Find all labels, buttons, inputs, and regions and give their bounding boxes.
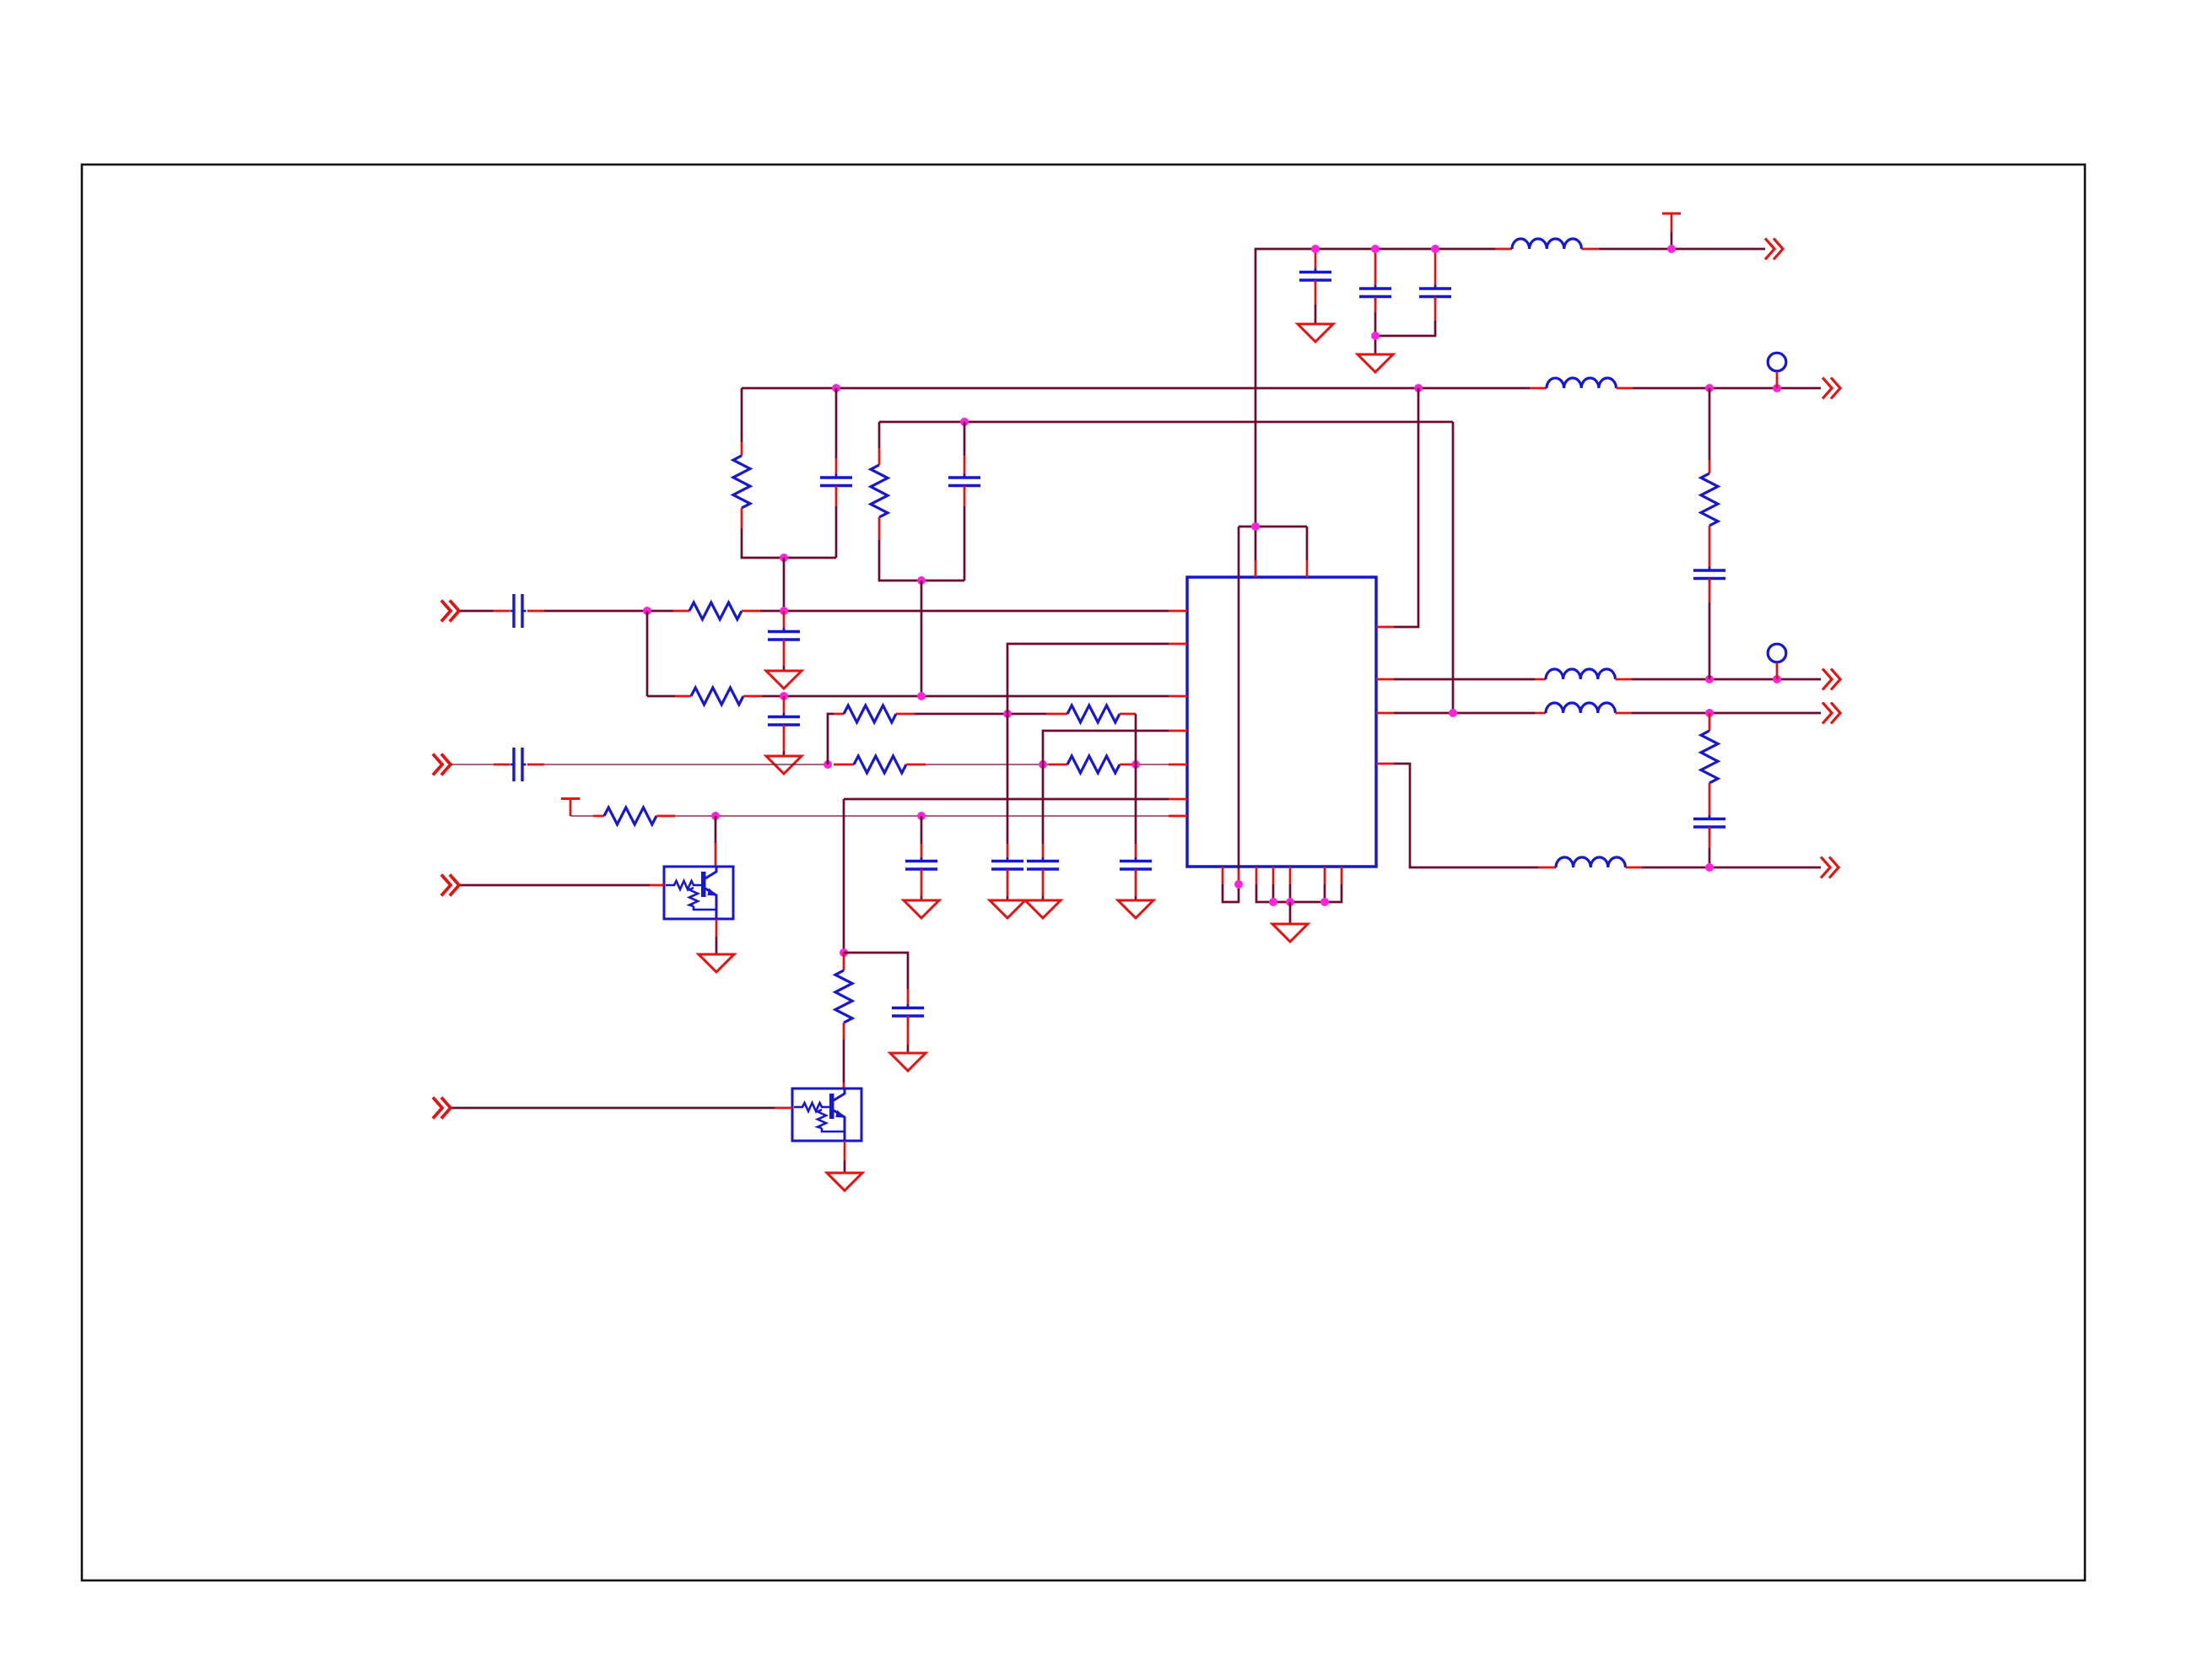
lead L2 left <box>1530 387 1547 390</box>
pin stub IC bottom x1489 <box>1255 867 1258 884</box>
cap C3 top lead <box>1434 249 1437 289</box>
wire row906 chevron to cap <box>451 764 494 765</box>
junction row460 x991 <box>832 384 840 392</box>
wire x767 down to row825 <box>646 611 649 696</box>
emitter lead Q1 <box>715 919 718 937</box>
collector lead Q1 <box>715 843 717 867</box>
lead L1 right <box>1581 248 1599 251</box>
wire C10 to ground <box>1007 896 1009 900</box>
offpage connector right row 845 <box>1822 703 1840 724</box>
cap C2 bottom lead <box>1374 297 1377 313</box>
wire row906 cap to x981 <box>544 764 828 765</box>
res R8 left lead <box>1046 713 1067 716</box>
net stub T2 bar <box>561 797 580 800</box>
wire C13 to ground <box>921 896 923 900</box>
res R5 left lead <box>834 764 854 766</box>
capacitor C8 <box>768 713 800 729</box>
res R5 right lead <box>906 764 926 766</box>
wire through IC vertical x1468 <box>1238 527 1240 869</box>
cap C5 bottom lead <box>964 486 966 507</box>
lead L4 right <box>1615 712 1632 715</box>
res R1 bottom lead <box>741 508 743 528</box>
pin lead IC row967 <box>1169 815 1187 818</box>
junction row906 x1236 <box>1039 760 1047 769</box>
offpage connector right row 1028 <box>1821 857 1839 878</box>
res R10 bottom lead <box>843 1023 845 1040</box>
cap C8 bottom lead <box>783 725 786 751</box>
junction row825 x1092 <box>917 692 926 700</box>
ring stem row460 <box>1776 372 1779 389</box>
cap C13 top lead <box>921 844 923 861</box>
junction row967 x1092 <box>917 812 926 820</box>
wire L2 to chevron row 460 <box>1633 387 1821 390</box>
wire C15 to row805 <box>1709 602 1711 679</box>
wire C3 corner to node 398 <box>1375 321 1435 336</box>
offpage connector left row 906 <box>433 754 451 775</box>
ground below Q2 <box>827 1173 862 1191</box>
wire row906 R6 to IC <box>1136 764 1169 765</box>
ground below C12 <box>1118 900 1153 918</box>
wire row967 R9 to IC <box>675 815 1169 817</box>
cap C5 top lead <box>964 456 966 478</box>
wire node 398 to ground <box>1374 336 1377 354</box>
res R12 bottom lead <box>1709 783 1711 800</box>
cap C14 top lead <box>907 989 910 1007</box>
capacitor C6 series <box>510 594 526 628</box>
junction row460 x1681 <box>1414 384 1423 392</box>
wire C8 to ground <box>783 751 786 756</box>
wire row846 R7 to R8 <box>915 713 1046 716</box>
net stub T1 bar <box>1662 213 1681 215</box>
junction bottom x1570 <box>1320 898 1329 906</box>
ground below C10 <box>990 900 1025 918</box>
wire C1 to ground <box>1315 305 1317 324</box>
junction row724 x767 <box>643 607 651 615</box>
wire row825 corner to R4 <box>647 695 675 698</box>
wire RC2 bottom to row825 <box>921 581 923 696</box>
offpage connector left row 1313 <box>433 1098 451 1119</box>
ground below IC <box>1272 924 1308 942</box>
res R3 left lead <box>673 610 689 613</box>
capacitor C12 <box>1120 857 1152 873</box>
cap C4 top lead <box>835 458 838 478</box>
resistor R6 <box>1067 756 1120 773</box>
wire row906 R5 to R6 <box>926 764 1049 765</box>
pin stub IC bottom x1529 <box>1289 867 1292 884</box>
ground below C14 <box>890 1053 926 1071</box>
wire row805 to L3 <box>1394 678 1535 681</box>
junction C1 top <box>1311 245 1320 253</box>
junction RC1 bottom <box>780 554 788 562</box>
wire RC1 bottom to row1 <box>783 558 786 611</box>
res R7 right lead <box>896 713 915 716</box>
wire row763 to corner x1194 <box>1007 644 1169 844</box>
junction row845 x1722 <box>1449 709 1457 717</box>
wire R2 top <box>878 422 881 448</box>
capacitor C11 <box>1027 857 1059 873</box>
junction bottom x1509 <box>1269 898 1277 906</box>
capacitor C2 <box>1359 285 1391 301</box>
wire x1722 down to row845 <box>1452 422 1455 713</box>
ground below Q1 <box>699 954 734 972</box>
lead L2 right <box>1616 387 1633 390</box>
junction row724 x929 <box>780 607 788 615</box>
wire R1 top <box>741 388 743 442</box>
res R2 bottom lead <box>878 517 881 540</box>
pin lead IC row825 <box>1169 695 1187 698</box>
wire Q2 emitter to ground <box>844 1160 846 1173</box>
wire VCC2 rail row 460 <box>742 387 1530 390</box>
wire x2026 down from row460 <box>1709 388 1711 460</box>
offpage connector VCC_OUT right <box>1765 239 1783 260</box>
cap C11 top lead <box>1042 844 1045 861</box>
power ring row460 <box>1768 353 1786 371</box>
wire row724 R3 to IC <box>760 610 1169 613</box>
wire C2 to node 398 <box>1374 312 1377 336</box>
ground below C7 <box>766 671 802 689</box>
offpage connector left row 1049 <box>441 875 459 896</box>
wire base row1313 <box>451 1107 775 1110</box>
inductor L3 <box>1546 669 1615 679</box>
wire x1092 row967 down <box>921 816 923 844</box>
resistor R8 <box>1067 705 1120 722</box>
resistor R9 <box>604 808 656 824</box>
capacitor C4 <box>820 474 852 490</box>
inductor L5 <box>1556 857 1625 867</box>
junction RC2 top <box>960 418 969 426</box>
pin stub IC top left x1468 <box>1238 869 1240 884</box>
pin lead IC row805 <box>1376 678 1394 681</box>
cap C16 top lead <box>1709 800 1711 818</box>
ground below C8 <box>766 756 802 774</box>
cap C15 top lead <box>1709 548 1711 570</box>
cap C9 right lead <box>527 764 544 766</box>
wire jog above IC top pins <box>1239 526 1307 528</box>
res R9 left lead <box>593 815 604 818</box>
pin stub IC bottom x1590 <box>1341 867 1343 884</box>
junction row805 x2026 <box>1705 675 1714 683</box>
wire x1346 down to cap <box>1135 764 1137 844</box>
pin stub IC top x1549 <box>1306 560 1309 577</box>
lead L3 left <box>1535 678 1546 681</box>
junction row460 x2106 <box>1773 384 1781 392</box>
cap C16 bottom lead <box>1709 827 1711 848</box>
cap C12 bottom lead <box>1135 869 1137 896</box>
wire C12 to ground <box>1135 896 1137 900</box>
resistor R12 vertical <box>1701 731 1718 783</box>
pin stub IC bottom x1449 <box>1222 867 1224 884</box>
pin lead IC row947 <box>1169 798 1187 801</box>
capacitor C9 series <box>510 748 526 781</box>
cap C3 bottom lead <box>1434 297 1437 321</box>
resistor R2 vertical <box>871 465 888 517</box>
inductor L2 <box>1547 378 1616 388</box>
res R6 right lead <box>1120 764 1136 766</box>
lead L5 right <box>1625 867 1642 869</box>
wire top pin x1549 down <box>1306 527 1309 560</box>
wire x848 row967 down <box>715 816 717 843</box>
cap C1 top lead <box>1315 249 1317 272</box>
offpage connector right row 460 <box>1822 378 1840 399</box>
cap C7 bottom lead <box>783 640 786 666</box>
junction node1129 <box>840 948 848 957</box>
junction row906 x981 <box>823 760 832 769</box>
lead L4 left <box>1535 712 1546 715</box>
lead L5 left <box>1538 867 1556 869</box>
net stub T2 stem <box>570 799 572 817</box>
pin stub IC top x1488 <box>1255 560 1257 577</box>
res R7 left lead <box>834 713 844 716</box>
wire row846 corner down to row906 <box>1135 714 1137 764</box>
capacitor C15 <box>1693 567 1725 583</box>
base lead Q2 <box>775 1107 792 1110</box>
wire bottom bus <box>1256 884 1342 902</box>
wire L3 to chevron row805 <box>1632 678 1821 681</box>
res R12 top lead <box>1709 713 1711 731</box>
junction row967 x848 <box>711 812 720 820</box>
resistor R10 vertical <box>835 970 852 1023</box>
res R11 bottom lead <box>1709 526 1711 548</box>
wire Q1 emitter to ground <box>715 937 718 954</box>
cap C10 top lead <box>1007 844 1009 861</box>
lead L3 right <box>1615 678 1632 681</box>
cap C14 bottom lead <box>907 1016 910 1045</box>
wire L4 to chevron row845 <box>1632 712 1821 715</box>
wire node1129 to cap corner <box>844 953 908 989</box>
resistor R3 <box>689 602 742 619</box>
wire row825 R4 to IC <box>762 695 1169 698</box>
offpage connector right row 805 <box>1822 669 1840 690</box>
wire row845 to L4 <box>1394 712 1535 715</box>
junction C2 top <box>1371 245 1380 253</box>
capacitor C3 <box>1419 285 1451 301</box>
cap C13 bottom lead <box>921 869 923 896</box>
junction row460 x2026 <box>1705 384 1714 392</box>
junction row845 x2026 <box>1705 709 1714 717</box>
emitter lead Q2 <box>844 1141 846 1160</box>
junction node 624 <box>1251 522 1260 531</box>
wire C5 top <box>964 422 966 456</box>
cap C8 top lead <box>783 696 786 716</box>
capacitor C14 <box>892 1004 924 1020</box>
pin stub IC bottom x1570 <box>1324 867 1326 884</box>
res R10 top lead <box>843 953 845 970</box>
wire x1000 down to node 1129 <box>843 799 845 953</box>
cap C12 top lead <box>1135 844 1137 861</box>
wire row905 corner down to row1028 <box>1394 764 1538 867</box>
ground below C1 <box>1298 324 1333 342</box>
net stub T1 stem wire <box>1671 232 1673 249</box>
junction RC2 bottom <box>917 576 926 585</box>
resistor R1 vertical <box>733 456 750 508</box>
ground below C13 <box>904 900 939 918</box>
res R6 left lead <box>1049 764 1067 766</box>
collector lead Q2 <box>843 1083 845 1088</box>
cap C15 bottom lead <box>1709 579 1711 603</box>
wire R10 to Q2 collector <box>843 1040 845 1083</box>
base lead Q1 <box>650 884 664 887</box>
junction row825 x929 <box>780 692 788 700</box>
res R9 right lead <box>656 815 675 818</box>
wire top pin x1488 down <box>1255 527 1257 560</box>
capacitor C16 <box>1693 815 1725 831</box>
pin stub IC bottom x1509 <box>1272 867 1275 884</box>
pin lead IC row905 <box>1376 763 1394 765</box>
wire row724 cap to R3 <box>544 610 673 613</box>
transistor Q2 digital <box>792 1088 861 1141</box>
wire row743 up to row460 <box>1394 388 1418 627</box>
cap C11 bottom lead <box>1042 869 1045 896</box>
res R8 right lead <box>1120 713 1136 716</box>
capacitor C5 <box>948 474 980 490</box>
junction row846 x1194 <box>1003 710 1012 718</box>
capacitor C7 <box>768 628 800 644</box>
wire row947 <box>844 798 1169 801</box>
junction bottom x1529 <box>1286 898 1294 906</box>
wire C14 to ground <box>907 1045 910 1053</box>
cap C2 top lead <box>1374 249 1377 289</box>
junction C3 top <box>1431 245 1439 253</box>
transistor Q1 digital <box>664 867 733 919</box>
wire bottom bus to ground <box>1289 902 1292 924</box>
pin lead IC row724 <box>1169 610 1187 613</box>
wire bottom pin x1509 down <box>1272 884 1275 902</box>
net stub T1 stem red <box>1671 213 1673 232</box>
resistor R7 <box>844 705 896 722</box>
IC U1 body <box>1187 577 1376 867</box>
resistor R4 <box>691 688 743 705</box>
wire C16 to row1028 <box>1709 848 1711 867</box>
pin lead IC row906 <box>1169 764 1187 766</box>
pin lead IC row845 <box>1376 712 1394 715</box>
wire C11 to ground <box>1042 896 1045 900</box>
inductor L4 <box>1546 703 1615 713</box>
res R3 right lead <box>742 610 760 613</box>
junction row906 x1346 <box>1131 760 1140 769</box>
cap C6 right lead <box>527 610 544 613</box>
cap C4 bottom lead <box>835 486 838 507</box>
wire bottom pin x1529 down <box>1289 884 1292 902</box>
cap C10 bottom lead <box>1007 869 1009 896</box>
wire C4 top <box>835 388 838 458</box>
res R2 top lead <box>878 448 881 465</box>
junction row1028 x2026 <box>1705 863 1714 872</box>
ground below C2 C3 <box>1358 354 1393 372</box>
wire C5 bottom <box>964 506 966 581</box>
inductor L1 <box>1512 239 1581 249</box>
resistor R11 vertical <box>1701 473 1718 526</box>
lead L1 left <box>1495 248 1512 251</box>
junction C2 C3 bottom <box>1371 332 1380 340</box>
res R11 top lead <box>1709 460 1711 473</box>
capacitor C1 <box>1299 268 1331 284</box>
resistor R5 <box>854 756 906 773</box>
res R1 top lead <box>741 442 743 456</box>
wire x981 row846 to row906 <box>828 714 834 764</box>
pin lead IC row866 <box>1169 730 1187 732</box>
wire C7 to ground <box>783 666 786 671</box>
wire row724 chevron to cap <box>460 610 494 613</box>
junction T1 stub <box>1667 245 1676 253</box>
pin lead IC row743 <box>1376 626 1394 629</box>
junction row805 x2106 <box>1773 675 1781 683</box>
res R4 right lead <box>743 695 762 698</box>
schematic frame border <box>82 165 2085 1580</box>
wire VCC top rail from corner x1488 down to node 624 and right to inductor <box>1255 249 1495 527</box>
cap C1 bottom lead <box>1315 280 1317 305</box>
wire C4 bottom <box>835 506 838 558</box>
junction x1468 y1048 <box>1234 880 1243 889</box>
capacitor C10 <box>991 857 1023 873</box>
wire RC2 top rail <box>879 421 1453 424</box>
wire R1 bottom <box>742 528 836 558</box>
offpage connector left row 724 <box>441 601 459 622</box>
cap C9 left lead <box>494 764 510 766</box>
cap C6 left lead <box>494 610 510 613</box>
pin lead IC row763 <box>1169 643 1187 646</box>
power ring row805 <box>1768 644 1786 662</box>
ground below C11 <box>1025 900 1061 918</box>
wire L1 to chevron VCC_OUT <box>1599 248 1765 251</box>
ring stem row805 <box>1776 663 1779 680</box>
wire base row1049 <box>460 884 650 887</box>
wire row967 T to R9 <box>570 815 593 817</box>
res R4 left lead <box>675 695 691 698</box>
cap C7 top lead <box>783 611 786 631</box>
wire bottom pin x1570 down <box>1324 884 1326 902</box>
capacitor C13 <box>905 857 937 873</box>
wire R2 bottom <box>879 540 964 581</box>
wire row866 to corner x1236 <box>1043 731 1169 844</box>
wire L5 to chevron row1028 <box>1642 867 1821 869</box>
wire bottom U left <box>1223 884 1239 902</box>
